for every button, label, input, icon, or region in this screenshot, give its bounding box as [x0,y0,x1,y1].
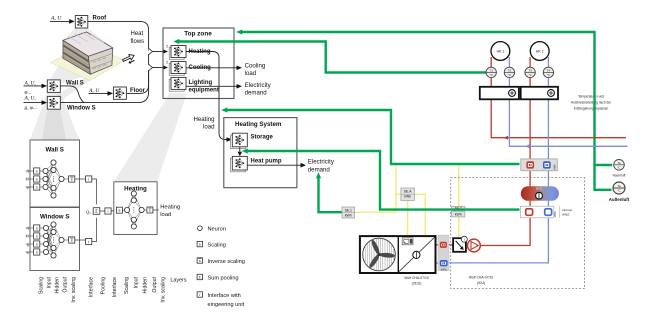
Heating System box [224,118,297,188]
wire yellow SE.A right drop to ODU [414,194,425,236]
wire window+wall bus to junction [61,70,149,103]
svg-text:Heating: Heating [160,205,180,211]
building ground plane [51,44,125,81]
wire wall output curving to window bus [61,86,85,103]
Window S network edges [46,225,62,256]
svg-text:s: s [36,185,38,190]
wire green G5 electricity to SE.1 [319,177,343,213]
wire green G3 heating-load to heat meter [225,110,520,164]
svg-text:°C: °C [490,73,493,77]
Window S inverse scaling [64,239,68,241]
svg-text:kWh: kWh [404,194,411,198]
svg-text:HK 1: HK 1 [497,50,505,54]
wire heating load output [153,209,159,211]
svg-text:equipment: equipment [189,88,219,94]
svg-text:load: load [245,70,257,77]
ODU electric meter icon [402,238,413,245]
wire electricity demand output (heat pump) [247,164,301,166]
wire floor input [89,92,109,94]
svg-text:Scaling: Scaling [124,277,130,294]
svg-text:(ODU): (ODU) [412,282,422,286]
wire pooling interface to Heating NN [111,210,116,213]
label box SE.2 kWh [452,206,465,217]
svg-text:i: i [199,292,200,297]
neural-net box Lighting equipment (top zone) [169,77,186,91]
svg-text:T3: T3 [528,68,532,72]
svg-text:(IDU): (IDU) [477,281,485,285]
svg-text:°C: °C [508,73,511,77]
Wall S inverse scaling [64,178,68,180]
neural-net box Cooling (top zone) [169,62,186,76]
svg-text:Außenluft: Außenluft [609,197,630,202]
svg-text:Q̇s: Q̇s [86,209,91,215]
heating circuit HK1 [491,42,510,61]
heat-flow double arrow icon [122,53,137,66]
fan blades [368,239,395,269]
svg-text:Raumluft: Raumluft [613,174,626,178]
svg-text:SE.A: SE.A [404,189,412,193]
ODU compressor compartment [399,237,435,271]
projection wedge WallS-box-to-WallS-big-box [30,92,80,140]
svg-text:Inverse scaling: Inverse scaling [208,259,245,265]
wire roof to junction [88,21,149,51]
projection wedge building-to-WallS-box [47,58,90,84]
svg-text:s: s [199,243,201,247]
svg-text:s: s [36,169,38,174]
neural-net box Wall S [47,80,60,93]
svg-text:A, U: A, U [50,16,62,22]
svg-text:g, φ...: g, φ... [25,105,37,111]
svg-text:Output: Output [63,276,69,292]
flow arrow red [504,136,509,140]
neural-net box Heat pump [231,156,248,171]
wire storage to heat pump [239,147,241,152]
label box SE.A kWh [401,188,415,200]
svg-text:Lighting: Lighting [189,80,213,86]
svg-text:WMZ: WMZ [562,213,569,217]
svg-text:demand: demand [308,166,330,173]
svg-text:Wolf CHA-07/10: Wolf CHA-07/10 [469,276,494,280]
svg-text:HK 2: HK 2 [536,50,544,54]
svg-text:Neuron: Neuron [208,227,226,233]
wire green G1 top-zone to air sensors [240,32,612,190]
Window S big NN box [30,208,80,271]
Heating NN neurons [125,207,130,212]
svg-text:load: load [160,212,171,218]
svg-text:Layers: Layers [170,278,186,284]
pipe blue tank to IDU [448,201,549,263]
svg-text:Wolf CHA-07/10: Wolf CHA-07/10 [404,276,429,280]
svg-text:Heat pump: Heat pump [251,159,282,165]
svg-text:Heating System: Heating System [235,121,282,128]
svg-text:°C: °C [617,165,620,169]
svg-text:kWh: kWh [441,267,447,271]
svg-text:kWh: kWh [345,213,352,217]
svg-text:Interface: Interface [88,277,94,297]
svg-text:T1: T1 [489,68,493,72]
wire green G4 storage to internal heat meter [246,151,520,210]
svg-text:Erstbegehung anpassen: Erstbegehung anpassen [574,107,609,111]
svg-text:flows: flows [131,39,145,45]
svg-text:Cooling: Cooling [245,63,266,70]
svg-text:s: s [36,226,38,231]
svg-text:Hidden: Hidden [55,277,61,294]
svg-text:Pooling: Pooling [101,277,107,294]
svg-text:Hidden: Hidden [142,277,148,294]
svg-text:Roof: Roof [93,15,108,21]
Heating NN inverse scaling [144,209,147,211]
IDU sensor circle i [461,236,467,242]
pipe blue HK2 return [547,57,549,187]
svg-text:Ta: Ta [617,161,621,165]
svg-text:Heating: Heating [193,116,214,123]
Heating big NN box [114,182,157,235]
sensor T3 [525,67,535,77]
tank pump [536,192,543,199]
wire cooling load output [186,67,237,69]
sensor T4 [543,67,553,77]
Wall S interface [75,178,86,180]
legend inverse scaling [197,258,202,263]
layer axis labels [39,276,187,302]
svg-text:Interface: Interface [112,277,118,297]
svg-text:Σ: Σ [95,209,98,214]
sensor T2 [504,67,514,77]
Wall S network edges [46,163,62,196]
Heating NN scaling [116,207,122,213]
svg-text:Input: Input [134,276,140,288]
svg-text:Heat: Heat [131,31,144,37]
svg-text:Window S: Window S [40,214,70,221]
svg-text:Heizkreisverteilung nach der: Heizkreisverteilung nach der [571,101,612,105]
svg-text:s: s [36,250,38,255]
svg-text:s: s [199,259,201,263]
internal heat meter Interner WMZ [520,206,553,218]
Wall S big NN box [30,140,80,207]
pipe red HK1 supply [491,57,626,138]
legend interface [197,292,202,297]
svg-text:Interface with: Interface with [208,293,241,299]
wire window input [24,102,43,104]
flow arrow blue [525,144,530,148]
svg-text:s: s [36,177,38,182]
wire yellow SE.2 drop to IDU valve [458,164,460,237]
building 3D model [63,32,113,74]
svg-text:kWh: kWh [552,164,556,170]
sum pooling [93,208,100,215]
projection wedge building-to-WindowS-box [47,65,112,101]
wire Window S interface to pooling [92,218,97,242]
svg-text:Ta: Ta [617,184,621,188]
svg-text:s: s [118,208,120,213]
svg-text:demand: demand [245,89,267,96]
Top zone box [163,28,234,99]
pipe blue HK1 return [509,57,627,146]
svg-text:Top zone: Top zone [184,31,212,38]
IDU circulation pump [468,239,481,252]
Window S neurons [43,225,48,230]
svg-text:A, U: A, U [88,88,100,94]
svg-text:s: s [36,234,38,239]
svg-text:s: s [36,242,38,247]
svg-text:Electricity: Electricity [308,159,335,166]
svg-text:°C: °C [617,189,620,193]
svg-text:SE.1: SE.1 [345,208,352,212]
svg-text:load: load [203,123,215,130]
svg-text:Storage: Storage [251,135,274,141]
wire wall input [24,85,43,87]
heating circuit HK2 [530,42,549,61]
legend sum pooling [197,274,202,279]
wire yellow SE.A left stub [396,193,401,195]
outdoor unit Wolf CHA-07/10 ODU [360,236,436,273]
svg-text:Inv. scaling: Inv. scaling [160,277,166,303]
green arrowheads [236,29,242,34]
IDU expansion valve (black box) [453,238,466,252]
Window S interface [75,239,86,241]
note Temperaturen text [571,95,612,111]
svg-text:Scaling: Scaling [39,277,45,294]
svg-text:Scaling: Scaling [208,242,226,248]
legend scaling [197,241,202,246]
IDU dashed boundary box [451,178,585,289]
pipe red tank to pump [480,201,530,246]
svg-text:T4: T4 [547,68,551,72]
neural-net box Heating (top zone) [169,46,186,60]
neural-net box Window S [47,96,60,109]
svg-text:eingeering unit: eingeering unit [208,302,245,308]
heat meter WMZ (heating circuits) [521,159,558,171]
svg-text:Electricity: Electricity [245,82,272,89]
manifold HK2 [521,87,558,100]
svg-text:Input: Input [47,276,53,288]
svg-text:kWh: kWh [455,212,462,216]
projection wedge WindowS-box-to-WindowS-big-box [30,110,80,208]
svg-text:2: 2 [166,45,168,49]
neural-net box Storage [231,133,248,148]
svg-text:°C: °C [529,73,532,77]
Heating NN edges [127,194,142,227]
interface after pooling [100,210,105,212]
svg-text:Interner: Interner [562,208,572,212]
pipe red HK2 supply [529,57,531,187]
svg-text:Inv. scaling: Inv. scaling [71,277,77,303]
svg-text:T2: T2 [508,68,512,72]
neural-net box Roof [75,16,88,29]
svg-text:2: 2 [166,61,168,65]
projection wedge roof-to-building [63,28,113,48]
svg-text:A, U,: A, U, [24,96,37,102]
wire heating load down to storage [186,52,228,140]
sensor Raumluft [614,160,625,171]
legend neuron [198,226,203,231]
wire yellow SE.1 run [354,165,396,212]
svg-text:Sum pooling: Sum pooling [208,275,239,281]
svg-text:A, U,: A, U, [24,80,37,86]
projection wedge TopZone-Heating-to-Heating-big-box [114,93,187,182]
manifold HK1 [480,87,519,100]
wire roof input [50,20,70,22]
neural-net box Floor [113,87,126,99]
svg-text:40 °C: 40 °C [536,188,542,191]
svg-text:Temperaturen und: Temperaturen und [578,95,604,99]
sensor Aussenluft [613,182,625,194]
svg-text:Window S: Window S [67,106,96,112]
wire green G2 heating to T1 valve [177,42,486,73]
svg-text:°C: °C [547,73,550,77]
junction bus and wires into Top zone [148,54,150,65]
svg-text:Wall S: Wall S [46,147,64,154]
refrigerant line connection strip [438,235,449,271]
svg-text:Output: Output [152,276,158,292]
sensor T1 [486,67,496,77]
wire electricity demand output (lighting) [186,85,237,87]
wire yellow SE.A bottom drop to ODU meter [407,200,409,236]
svg-text:i: i [464,238,465,242]
wire Wall S interface to pooling [92,179,97,204]
label box SE.1 kWh [342,207,355,218]
svg-text:kWh: kWh [553,211,557,217]
pipe red ODU-IDU stub [447,244,453,246]
wire floor to junction [127,70,149,93]
Wall S neurons [43,168,48,173]
